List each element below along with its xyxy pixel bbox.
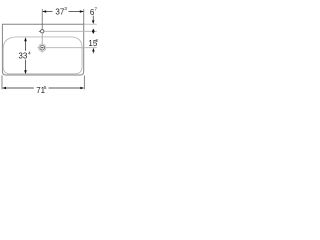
chained arrows diamond at tap line <box>92 29 95 34</box>
top edge extension line (right) <box>84 23 97 25</box>
deck faucet hole slot <box>41 47 44 48</box>
extension line: basin right edge down to bottom dimension <box>83 75 85 89</box>
tap hole centre line (horizontal, to right) <box>44 30 97 32</box>
right dimension 15 up arrow <box>92 48 95 52</box>
bottom dimension line 71 <box>6 87 80 89</box>
deck faucet hole outer circle with ticks <box>37 44 46 53</box>
right dimension 15 arrow tail <box>92 52 94 54</box>
top dimension right arrow <box>80 10 84 13</box>
svg-text:5: 5 <box>44 85 47 91</box>
svg-text:4: 4 <box>28 50 31 56</box>
svg-text:2: 2 <box>95 38 98 44</box>
deck hole centre line (horizontal, to right) <box>45 47 96 49</box>
extension line: basin right edge up to top dimension <box>83 9 85 24</box>
tap hole crosshair <box>39 30 44 33</box>
bottom dimension right arrow <box>80 87 84 90</box>
inner bowl outline <box>3 37 82 74</box>
extension line: basin left edge down to bottom dimension <box>1 75 3 89</box>
top dimension left arrow <box>42 10 46 13</box>
svg-text:3: 3 <box>64 6 67 12</box>
deck faucet hole inner circle <box>40 45 45 50</box>
right dimension 6 leader line <box>92 16 94 22</box>
left dimension down arrow <box>24 70 27 74</box>
right dimension 6 down arrow <box>92 20 95 24</box>
washbasin outer outline <box>2 24 83 75</box>
left dimension up arrow <box>24 37 27 41</box>
svg-text:33: 33 <box>18 52 27 61</box>
svg-text:7: 7 <box>94 6 97 12</box>
left dimension line 33 <box>25 41 27 72</box>
extension line: tap hole up to top dimension <box>41 9 43 29</box>
tap hole vertical centre line <box>41 33 43 44</box>
bottom dimension left arrow <box>2 87 6 90</box>
top dimension line 37 <box>43 11 83 13</box>
background <box>0 0 100 100</box>
